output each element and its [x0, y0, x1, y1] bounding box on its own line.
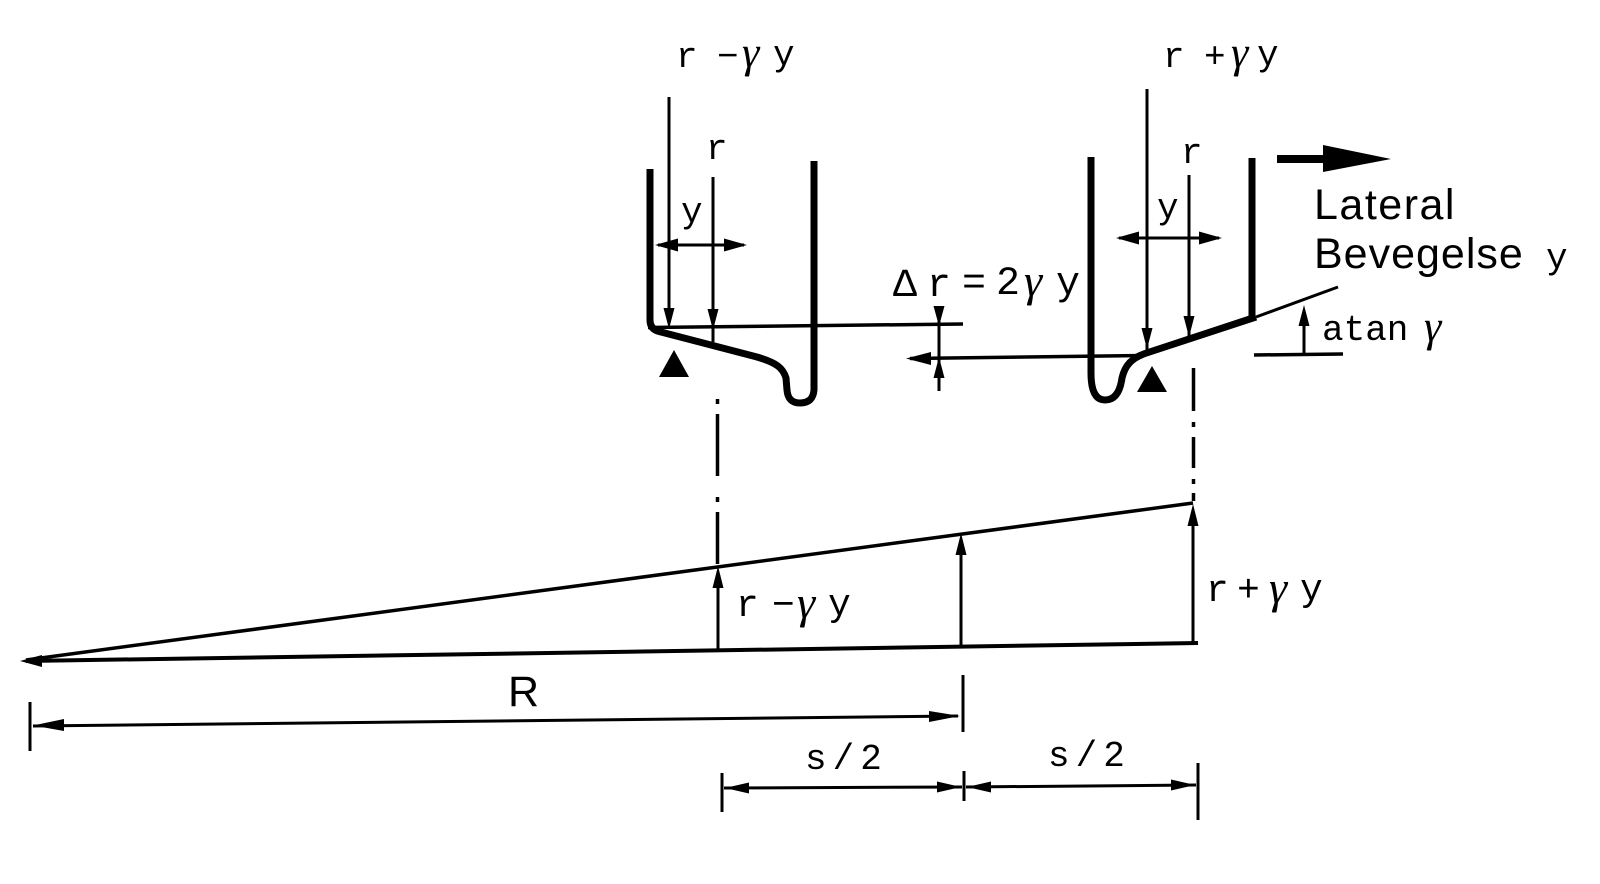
center line dash-dot (left wheel) [716, 399, 720, 564]
dimension s/2 middle tick [963, 771, 966, 801]
svg-text:γ: γ [1269, 562, 1289, 613]
svg-text:γ: γ [1231, 28, 1250, 77]
svg-text:r: r [736, 585, 759, 628]
svg-text:Bevegelse: Bevegelse [1314, 230, 1524, 278]
angle annotation arrow (vertical, arrowhead up) [1299, 305, 1310, 354]
dimension s/2 right tick [1197, 763, 1200, 820]
label Bevegelse y [1314, 230, 1568, 279]
svg-text:Lateral: Lateral [1314, 181, 1456, 229]
label r + gamma y (bottom right) [1206, 562, 1323, 613]
cone apex arrowhead [20, 655, 42, 667]
dimension s/2 left tick [721, 773, 724, 812]
arrow line r (right wheel, vertical, arrowhead down) [1184, 175, 1195, 340]
svg-text:r: r [1163, 37, 1185, 78]
svg-text:y: y [1300, 569, 1323, 612]
dimension s/2 left segment [724, 782, 962, 794]
svg-text:s/2: s/2 [805, 739, 888, 780]
right wheel right face [1249, 158, 1256, 320]
svg-text:+: + [1204, 37, 1226, 78]
label r-gamma-y top left [676, 28, 795, 78]
svg-text:y: y [773, 35, 795, 76]
svg-text:r: r [706, 129, 728, 170]
svg-text:y: y [1546, 238, 1568, 279]
svg-text:y: y [1257, 35, 1279, 76]
svg-text:y: y [1056, 262, 1080, 307]
svg-text:atan: atan [1322, 310, 1408, 351]
svg-text:y: y [681, 192, 703, 233]
svg-text:s/2: s/2 [1048, 736, 1131, 777]
svg-text:−: − [717, 37, 739, 78]
svg-text:y: y [1157, 188, 1179, 229]
dimension s/2 right segment [966, 780, 1196, 793]
svg-text:r: r [927, 264, 951, 309]
cone bottom line [26, 643, 1198, 661]
contact line left wheel (upper delta-r reference line) [648, 324, 963, 328]
dimension R line [33, 711, 960, 731]
svg-text:γ: γ [742, 28, 761, 77]
svg-text:−: − [772, 585, 795, 628]
svg-text:y: y [828, 584, 851, 627]
svg-text:Δ: Δ [893, 264, 917, 309]
svg-text:R: R [508, 668, 539, 716]
svg-text:γ: γ [1024, 255, 1044, 306]
svg-text:+: + [1237, 570, 1260, 613]
label atan gamma [1322, 302, 1443, 351]
label delta-r = 2 gamma y [893, 255, 1080, 309]
contact line right wheel (lower delta-r reference line, arrowhead left) [906, 352, 1143, 365]
arrow line r-gamma-y (left wheel, vertical, arrowhead down) [664, 97, 675, 329]
contact point marker triangle (right wheel) [1137, 366, 1167, 392]
left wheel profile [650, 161, 814, 403]
arrow r+gamma-y (bottom diagram right, vertical arrowhead up) [1188, 504, 1199, 643]
svg-text:2: 2 [996, 262, 1020, 307]
dimension R left tick [29, 702, 32, 751]
arrow r-gamma-y (bottom diagram, vertical arrowhead up) [713, 566, 724, 650]
svg-text:r: r [676, 37, 698, 78]
contact point marker triangle (left wheel) [659, 350, 689, 377]
arrow line r (left wheel, vertical, arrowhead down) [708, 177, 719, 342]
angle annotation baseline [1254, 354, 1343, 355]
label r - gamma y (bottom) [736, 577, 851, 628]
svg-text:=: = [962, 262, 986, 307]
dimension arrow y (right wheel, horizontal double-headed) [1116, 232, 1222, 245]
svg-text:r: r [1206, 570, 1229, 613]
lateral movement arrow (thick, pointing right) [1277, 145, 1391, 172]
cone top sloped line [26, 503, 1193, 660]
svg-text:γ: γ [797, 577, 817, 628]
tread extension line (thin, to atan gamma angle) [1256, 287, 1338, 317]
center line dash-dot (right wheel) [1192, 368, 1196, 501]
label r+gamma-y arrow line (right wheel, vertical, arrowhead down) [1142, 89, 1153, 353]
svg-text:γ: γ [1424, 302, 1443, 351]
dimension arrow y (left wheel, horizontal double-headed) [655, 239, 747, 252]
dimension arrow delta-r (vertical with outside arrowheads) [934, 306, 945, 391]
svg-text:r: r [1181, 133, 1203, 174]
arrow at R end (bottom diagram, vertical arrowhead up) [956, 533, 967, 647]
label r+gamma-y top right [1163, 28, 1279, 78]
dimension R right tick [962, 675, 965, 732]
right wheel profile [1091, 157, 1256, 400]
